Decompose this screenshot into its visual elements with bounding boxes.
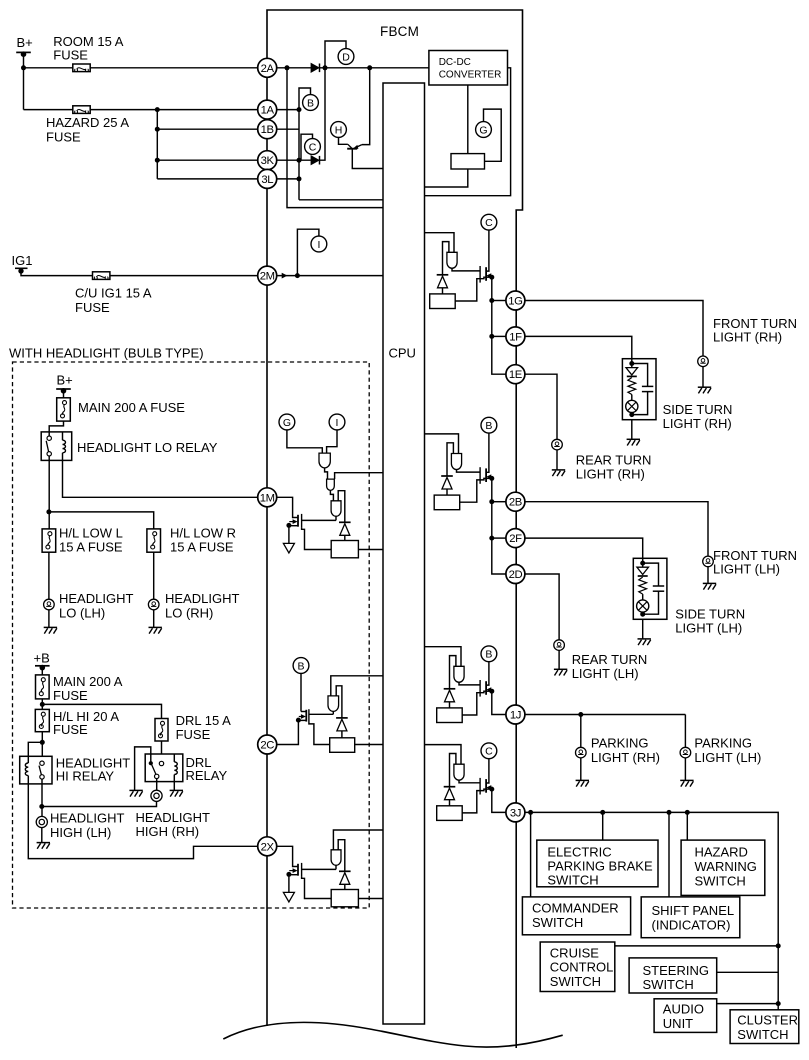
node B: [481, 646, 497, 662]
wire Q6 output to pins 1G 1F 1E: [492, 277, 506, 374]
wire resistor to source Q9 (switch feed driver): [462, 789, 486, 813]
svg-text:CLUSTER: CLUSTER: [737, 1012, 798, 1027]
wire to EPB switch: [602, 812, 604, 840]
node G: [279, 414, 295, 430]
svg-text:LIGHT (RH): LIGHT (RH): [663, 416, 732, 431]
wire diode to resistor Q8 (parking driver): [449, 702, 451, 708]
svg-text:SWITCH: SWITCH: [737, 1027, 788, 1042]
resistor R1: [451, 154, 485, 169]
svg-text:1A: 1A: [261, 105, 275, 117]
svg-text:1M: 1M: [260, 492, 275, 504]
junction 2M internal: [295, 273, 300, 278]
junction cruise: [776, 943, 781, 948]
svg-text:SHIFT PANEL: SHIFT PANEL: [652, 903, 735, 918]
svg-text:DC-DC: DC-DC: [439, 57, 471, 68]
pin 1G: [506, 291, 525, 310]
wire DRL relay to headlight high RH splice: [156, 782, 158, 791]
wire to hazard switch: [686, 812, 688, 840]
svg-text:(INDICATOR): (INDICATOR): [652, 917, 731, 932]
wire to ground: [556, 450, 558, 470]
hook wire to node C: [301, 134, 313, 160]
ground side turn LH: [638, 638, 651, 640]
wire pin 3J switch feed bus: [525, 812, 779, 1009]
wire gate output Q8 (parking driver): [459, 682, 480, 685]
pin 2D: [506, 565, 525, 584]
pin 1A: [258, 100, 277, 119]
wire 2A column down to CPU: [287, 68, 383, 208]
svg-text:FUSE: FUSE: [75, 300, 110, 315]
svg-text:SWITCH: SWITCH: [550, 974, 601, 989]
svg-text:B: B: [297, 660, 304, 672]
svg-text:HEADLIGHT: HEADLIGHT: [59, 591, 133, 606]
CRUISE CONTROL SWITCH box: [540, 942, 615, 992]
diagram continuation wave: [223, 1022, 562, 1047]
wire MAIN fuse to LO relay: [49, 421, 63, 432]
wire CPU to gate Q6 (turn RH driver): [425, 233, 455, 253]
wire to H/L LOW R fuse: [49, 512, 154, 529]
wire to ground: [580, 758, 582, 781]
wire pin 1A into module: [277, 109, 300, 111]
node B: [293, 658, 309, 674]
junction DC-DC feed: [367, 65, 372, 70]
ground headlight LO RH: [149, 626, 162, 628]
node I: [329, 414, 345, 430]
svg-text:2X: 2X: [261, 841, 275, 853]
wire gate feedback to CPU: [335, 473, 383, 479]
resistor R4: [330, 738, 355, 753]
svg-text:G: G: [283, 417, 291, 429]
+B terminal: [35, 665, 50, 667]
SHIFT PANEL (INDICATOR) box: [641, 897, 740, 938]
fuse ROOM 15A: [73, 64, 90, 72]
svg-text:G: G: [479, 124, 487, 136]
node D: [338, 49, 354, 65]
svg-text:LO (LH): LO (LH): [59, 605, 105, 620]
pin 2A: [258, 58, 277, 77]
wire gate feedback hook Q5 (2X driver): [338, 840, 345, 872]
wire B+ to MAIN fuse: [63, 391, 65, 398]
wire gate feedback hook Q6 (turn RH driver): [443, 242, 449, 275]
svg-text:HI RELAY: HI RELAY: [56, 769, 115, 784]
wire diode to resistor R4: [341, 731, 343, 738]
svg-text:HEADLIGHT: HEADLIGHT: [50, 811, 124, 826]
wire gate feedback hook Q9 (switch feed driver): [450, 754, 456, 787]
ground point parking RH: [576, 747, 587, 758]
svg-text:LIGHT (LH): LIGHT (LH): [694, 750, 761, 765]
svg-text:H/L LOW L: H/L LOW L: [59, 526, 123, 541]
logic gate A1: [319, 453, 330, 468]
svg-text:C: C: [485, 217, 493, 229]
ground point HEADLIGHT LO RH: [148, 599, 159, 610]
node I: [311, 236, 327, 252]
svg-text:FUSE: FUSE: [53, 47, 88, 62]
hook wire to node G: [484, 109, 502, 161]
wire LO relay switch down: [48, 460, 50, 529]
CLUSTER SWITCH box: [730, 1010, 799, 1044]
svg-text:C/U IG1 15 A: C/U IG1 15 A: [75, 285, 152, 300]
wire gate output Q7 (turn LH driver): [457, 470, 481, 473]
wire B+ to ROOM fuse to pin 2A: [24, 67, 73, 69]
wire resistor R4 to CPU: [355, 744, 383, 746]
wire L fuse to splice: [48, 552, 50, 599]
pin 2C: [258, 735, 277, 754]
wire to HI relay coil: [28, 742, 42, 756]
MOSFET Q2 (1M driver): [297, 515, 299, 527]
wire CPU to 2X gate: [333, 830, 383, 850]
driver gate Q5 (2X driver): [331, 850, 341, 866]
junction headlight LO feed: [46, 509, 51, 514]
svg-text:PARKING: PARKING: [591, 736, 649, 751]
svg-text:CPU: CPU: [389, 346, 416, 361]
svg-text:FUSE: FUSE: [176, 727, 211, 742]
pin 1M: [258, 488, 277, 507]
node C: [481, 214, 497, 230]
wire CPU to gate Q8 (parking driver): [425, 647, 462, 667]
wire to ground: [702, 367, 704, 388]
svg-text:2B: 2B: [509, 497, 522, 509]
svg-text:3K: 3K: [261, 155, 275, 167]
svg-text:2A: 2A: [261, 63, 275, 75]
driver gate Q9 (switch feed driver): [454, 764, 464, 780]
junction at 1G: [489, 298, 494, 303]
wire main feed to DRL fuse: [42, 704, 161, 718]
svg-text:C: C: [309, 141, 317, 153]
wire CPU to gate Q7 (turn LH driver): [425, 434, 459, 454]
wire pin 2A into module: [277, 67, 312, 69]
node G: [476, 122, 492, 138]
junction at 1F: [489, 334, 494, 339]
svg-text:REAR TURN: REAR TURN: [576, 452, 652, 467]
WITH HEADLIGHT (BULB TYPE) dashed boundary: [13, 362, 370, 908]
wire pin 2M to CPU: [277, 275, 384, 277]
svg-text:2C: 2C: [260, 740, 274, 752]
wire gate output Q2 (1M driver): [335, 516, 337, 520]
svg-text:LO (RH): LO (RH): [165, 605, 213, 620]
B+ terminal headlight: [56, 388, 71, 390]
svg-text:STEERING: STEERING: [643, 963, 709, 978]
MOSFET Q6 (turn RH driver): [479, 266, 481, 283]
wire cruise control to bus: [615, 945, 778, 947]
wire drain tap Q5 (2X driver): [302, 877, 332, 899]
svg-text:ELECTRIC: ELECTRIC: [547, 844, 611, 859]
wire CPU to gate A4: [331, 676, 383, 696]
CPU block U1: [383, 83, 425, 1024]
svg-text:B: B: [485, 420, 492, 432]
pin 3J: [506, 803, 525, 822]
IG1 terminal: [15, 267, 28, 269]
svg-text:HAZARD 25 A: HAZARD 25 A: [46, 115, 129, 130]
svg-text:2F: 2F: [509, 533, 522, 545]
svg-text:FUSE: FUSE: [53, 722, 88, 737]
svg-text:PARKING: PARKING: [694, 736, 752, 751]
svg-text:15 A FUSE: 15 A FUSE: [170, 540, 234, 555]
wire Q4 source to pin 2C: [277, 720, 299, 744]
ground parking RH: [576, 779, 589, 781]
wire pin 2D to rear turn LH: [525, 574, 559, 640]
ground parking LH: [680, 779, 693, 781]
wire pin 1E to rear turn RH: [525, 374, 557, 439]
MOSFET Q5 (2X driver): [297, 864, 299, 876]
svg-text:I: I: [317, 239, 320, 251]
svg-text:B: B: [307, 97, 314, 109]
wire gate A2 to driver gate: [330, 490, 333, 500]
wire DRL fuse to DRL relay switch: [161, 741, 163, 762]
driver gate Q8 (parking driver): [454, 666, 464, 682]
svg-text:3L: 3L: [261, 174, 273, 186]
wire diode to resistor Q9 (switch feed driver): [449, 800, 451, 806]
pin 1B: [258, 120, 277, 139]
wire resistor to source Q6 (turn RH driver): [455, 277, 486, 301]
junction hazard switch feed: [685, 810, 690, 815]
wire pin 1M to driver: [277, 497, 298, 517]
wire resistor to CPU Q2 (1M driver): [358, 549, 383, 551]
svg-text:2M: 2M: [260, 271, 275, 283]
svg-text:WITH HEADLIGHT (BULB TYPE): WITH HEADLIGHT (BULB TYPE): [9, 346, 204, 361]
svg-text:SWITCH: SWITCH: [532, 915, 583, 930]
svg-text:LIGHT (LH): LIGHT (LH): [572, 666, 639, 681]
wire node B to MOSFET Q4: [300, 673, 302, 712]
svg-text:RELAY: RELAY: [186, 768, 228, 783]
junction at 2B: [489, 499, 494, 504]
wire splice column to CPU: [299, 199, 383, 201]
svg-text:15 A FUSE: 15 A FUSE: [59, 540, 123, 555]
ground arrow Q2 (1M driver): [288, 526, 290, 544]
wire node G to gate: [287, 429, 322, 453]
wire junction to high RH splice: [42, 801, 157, 806]
svg-text:C: C: [485, 746, 493, 758]
node H: [331, 122, 347, 138]
fuse HAZARD 25A: [73, 106, 90, 114]
wire gate output A4: [332, 711, 334, 714]
svg-text:1E: 1E: [509, 369, 523, 381]
wire resistor to source Q8 (parking driver): [462, 691, 486, 715]
wire Q8 output to pin 1J: [492, 691, 506, 714]
resistor Q7 (turn LH driver): [434, 495, 460, 510]
pin 1F: [506, 327, 525, 346]
STEERING SWITCH box: [629, 958, 717, 993]
pin 1E: [506, 365, 525, 384]
svg-text:FBCM: FBCM: [380, 24, 419, 39]
driver gate Q7 (turn LH driver): [451, 454, 461, 470]
wire LO relay coil to pin 1M: [63, 460, 258, 497]
fuse H/L LOW L 15A: [42, 529, 56, 552]
svg-text:IG1: IG1: [12, 253, 33, 268]
wire pin 2X to driver: [277, 846, 298, 866]
svg-text:COMMANDER: COMMANDER: [532, 901, 619, 916]
clamp diode Q7 (turn LH driver): [441, 475, 453, 477]
wire node H to transistor: [339, 137, 348, 144]
wire diode to resistor Q7 (turn LH driver): [446, 489, 448, 495]
wire to HAZARD fuse to pin 1A: [24, 109, 73, 111]
wire gate output Q5 (2X driver): [335, 865, 337, 869]
wire side turn LH to ground: [642, 619, 644, 639]
fuse C/U IG1 15A: [93, 272, 110, 280]
arrow on 2M wire: [282, 273, 288, 279]
svg-text:B+: B+: [17, 35, 33, 50]
node C: [305, 139, 321, 155]
resistor Q8 (parking driver): [437, 708, 463, 723]
fuse DRL 15A: [155, 719, 168, 742]
internal splice column 1A-3L: [298, 110, 300, 200]
svg-text:B: B: [485, 649, 492, 661]
lamp assembly SIDE TURN LIGHT RH: [622, 359, 656, 420]
resistor Q5 (2X driver): [331, 890, 358, 907]
relay DRL RELAY: [145, 754, 183, 782]
junction commander feed: [528, 810, 533, 815]
ground headlight HIGH LH: [37, 842, 50, 844]
junction parking RH: [578, 712, 583, 717]
svg-text:LIGHT (RH): LIGHT (RH): [576, 467, 645, 482]
svg-text:LIGHT (RH): LIGHT (RH): [713, 329, 782, 344]
junction shift panel feed: [667, 810, 672, 815]
svg-text:SWITCH: SWITCH: [695, 873, 746, 888]
wire DC-DC bottom to resistor: [467, 85, 469, 154]
resistor Q2 (1M driver): [331, 541, 358, 558]
ground point rear turn LH: [554, 640, 565, 651]
HAZARD WARNING SWITCH box: [681, 840, 765, 895]
junction main feed: [40, 702, 45, 707]
svg-text:HEADLIGHT LO RELAY: HEADLIGHT LO RELAY: [77, 440, 218, 455]
wire HI fuse to relay: [41, 732, 43, 761]
svg-text:MAIN 200 A FUSE: MAIN 200 A FUSE: [78, 400, 185, 415]
wire to commander switch: [530, 812, 532, 897]
wire diode to DC-DC converter: [320, 67, 429, 69]
wire splice to ground: [48, 610, 50, 628]
wire to pin 3K: [157, 159, 258, 161]
relay HEADLIGHT HI RELAY: [20, 756, 52, 784]
wire node I to gate: [327, 429, 337, 453]
driver gate Q2 (1M driver): [331, 501, 341, 517]
junction 3K internal: [297, 158, 302, 163]
junction at 2F: [489, 536, 494, 541]
svg-text:HIGH (RH): HIGH (RH): [136, 824, 200, 839]
logic gate A2: [327, 479, 335, 490]
clamp diode Q8 (parking driver): [444, 688, 456, 690]
wire splice to ground: [153, 610, 155, 628]
wire pin 1F to side turn RH: [525, 336, 632, 363]
wire to shift panel: [668, 812, 670, 897]
svg-text:+B: +B: [34, 650, 50, 665]
wire Q4 drain tap: [309, 723, 330, 745]
svg-text:HEADLIGHT: HEADLIGHT: [165, 591, 239, 606]
svg-text:HIGH (LH): HIGH (LH): [50, 825, 111, 840]
fuse H/L LOW R 15A: [147, 529, 161, 552]
wire pin 1J to parking lights: [525, 714, 686, 716]
wire to pin 1B: [157, 128, 258, 130]
diode on 2A feed: [311, 64, 319, 73]
ground headlight LO LH: [44, 626, 57, 628]
pin 2B: [506, 492, 525, 511]
svg-text:SIDE TURN: SIDE TURN: [675, 606, 745, 621]
wire steering switch to bus: [717, 971, 779, 973]
wire pin 2F to side turn LH: [525, 538, 643, 563]
wire 3K diode up to 2A net: [320, 68, 325, 160]
ground point HEADLIGHT HIGH LH: [36, 816, 47, 827]
clamp diode Q2 (1M driver): [339, 521, 351, 523]
junction EPB feed: [600, 810, 605, 815]
svg-text:PARKING BRAKE: PARKING BRAKE: [547, 859, 653, 874]
pin 2X: [258, 837, 277, 856]
wire drain tap Q2 (1M driver): [302, 528, 332, 550]
pin 3L: [258, 169, 277, 188]
fuse MAIN 200A lower: [36, 675, 50, 699]
resistor Q9 (switch feed driver): [437, 806, 463, 821]
pin 3K: [258, 151, 277, 170]
transistor Q1: [347, 148, 357, 150]
wire resistor to source Q7 (turn LH driver): [460, 478, 486, 502]
junction 2A internal: [285, 65, 290, 70]
ground front turn RH: [698, 386, 711, 388]
svg-text:SWITCH: SWITCH: [547, 873, 598, 888]
wire to ground: [707, 567, 709, 584]
wire diode to resistor Q5 (2X driver): [344, 884, 346, 889]
fuse H/L HI 20A: [35, 709, 49, 731]
wire diode to resistor Q2 (1M driver): [344, 535, 346, 540]
wire +B to MAIN fuse 2: [41, 667, 43, 675]
wire splice to ground: [41, 828, 43, 843]
MOSFET Q8 (parking driver): [479, 680, 481, 697]
svg-text:SWITCH: SWITCH: [643, 977, 694, 992]
svg-text:3J: 3J: [510, 807, 521, 819]
hook wire to node D: [325, 41, 346, 68]
svg-text:REAR TURN: REAR TURN: [572, 652, 648, 667]
wire to parking LH: [684, 715, 686, 748]
node B: [303, 95, 319, 111]
svg-text:MAIN 200 A: MAIN 200 A: [53, 674, 123, 689]
ground point HEADLIGHT LO LH: [44, 599, 55, 610]
clamp diode Q6 (turn RH driver): [437, 274, 449, 276]
svg-text:1J: 1J: [510, 710, 521, 722]
svg-text:H/L LOW R: H/L LOW R: [170, 526, 236, 541]
wire pin 1G to front turn RH: [525, 301, 703, 357]
pin 2F: [506, 529, 525, 548]
wire pin 2B to front turn LH: [525, 502, 708, 556]
DC-DC converter block: [429, 51, 508, 86]
wire to ground: [558, 650, 560, 669]
junction headlight high: [39, 804, 44, 809]
junction 3L internal: [297, 176, 302, 181]
junction audio: [776, 1001, 781, 1006]
wire Q9 output to pin 3J: [492, 789, 506, 812]
wire gate output Q6 (turn RH driver): [452, 268, 480, 271]
ground rear turn LH: [554, 668, 567, 670]
wire pin 3L into module: [277, 178, 300, 180]
wire B+ down to junction: [23, 54, 25, 68]
ground DRL coil: [170, 789, 183, 791]
svg-text:FUSE: FUSE: [46, 130, 81, 145]
wire MAIN fuse 2 down: [41, 699, 43, 710]
wire diode to resistor Q6 (turn RH driver): [442, 288, 444, 294]
svg-text:AUDIO: AUDIO: [663, 1002, 704, 1017]
ground DRL switch: [129, 789, 142, 791]
wire to parking RH: [580, 715, 582, 748]
ground point front turn RH: [698, 356, 709, 367]
ground arrow Q5 (2X driver): [288, 875, 290, 893]
svg-text:HEADLIGHT: HEADLIGHT: [136, 810, 210, 825]
svg-text:SIDE TURN: SIDE TURN: [663, 402, 733, 417]
clamp diode Q5 (2X driver): [339, 870, 351, 872]
hook wire to node B: [299, 88, 311, 110]
junction on B+ feed: [21, 65, 26, 70]
wire gate feedback hook Q7 (turn LH driver): [447, 443, 453, 476]
svg-text:I: I: [336, 417, 339, 429]
wire transistor to CPU: [352, 149, 383, 169]
wire pin 3K into module: [277, 159, 312, 161]
svg-text:CONVERTER: CONVERTER: [439, 70, 502, 81]
wire pin 1B into module: [277, 128, 300, 130]
MOSFET Q7 (turn LH driver): [479, 467, 481, 484]
pin 2M: [258, 266, 277, 285]
